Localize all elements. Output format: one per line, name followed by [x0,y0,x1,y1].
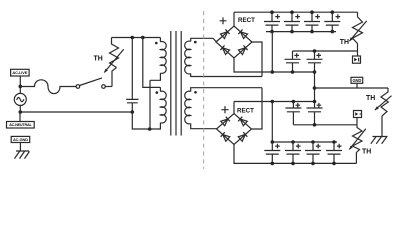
node (X-cap top) [131,36,135,40]
wire (B- rail) [293,124,357,126]
label + (RECT1) [220,17,227,24]
node (bank2 rail at C11) [291,140,295,144]
thermistor TH3 (chassis gnd) [375,88,392,137]
wire (P1 bottom drop) [149,80,151,129]
fuse F1 [20,80,76,94]
wire (RECT2 + rail) [234,101,316,103]
wire (RECT1 - output) [234,58,315,72]
terminal B+ box [353,56,361,63]
svg-text:TH: TH [366,95,375,102]
node (C4 bottom) [310,30,314,34]
wire (B+ raw rail) [234,11,358,13]
node (return rail at C-bank1) [271,70,275,74]
node (mid rail at drop) [271,100,275,104]
ground (mains earth) [15,143,30,159]
capacitor C10 [264,142,280,163]
node (neutral junction) [19,110,23,114]
node (C13 bottom) [332,162,336,166]
thermistor TH2 (B-) [349,125,366,164]
capacitor C12 [305,142,321,163]
bridge rectifier RECT1 [216,26,252,58]
wire (RECT1 + output) [233,12,235,26]
svg-text:GND: GND [352,78,361,83]
node (return rail at C7/gnd) [313,70,317,74]
node (bank2 rail at C10) [271,140,275,144]
node (C2 bottom) [270,30,274,34]
ground (chassis) [371,137,388,144]
wire (gnd drop to bank2) [271,102,273,143]
transformer T1 secondary winding S2 [185,88,262,129]
svg-text:AC-LIVE: AC-LIVE [12,70,27,75]
wire (AC-LIVE lead) [19,76,21,86]
isolation boundary (dashed) [203,11,205,169]
node (rail at C3 top) [290,10,294,14]
svg-text:RECT: RECT [237,107,254,114]
node (C3 bottom) [290,30,294,34]
capacitor C13 [326,142,342,163]
label + (RECT2) [221,106,228,113]
terminal B- box [354,111,362,125]
node (mid rail at C8) [292,100,296,104]
node (P1/P2 bottom junction) [148,127,152,131]
svg-text:TH: TH [362,149,371,156]
capacitor C7 [307,51,323,63]
node (rail at C2 top) [270,10,274,14]
svg-text:AC-NEUTRAL: AC-NEUTRAL [9,123,32,127]
capacitor C11 [285,142,301,163]
capacitor C3 [284,12,300,31]
wire (bank1 bottom rail) [266,31,336,33]
svg-text:TH: TH [94,56,103,63]
wire (primary strap to P2 top) [143,38,161,88]
label TH (TH2) [362,149,371,156]
wire (primary top rail) [112,37,161,39]
node (X-cap bottom) [131,110,135,114]
wire (RECT2 - output) [234,145,356,164]
capacitor C8 [285,102,301,125]
svg-text:RECT: RECT [238,17,255,24]
label AC-NEUTRAL [7,112,35,128]
node (live junction) [19,85,23,89]
node (C7 top) [313,49,317,53]
wire (S2 AC right loop) [252,88,263,129]
capacitor C9 [307,102,323,125]
transformer T1 secondary winding S1 [185,38,262,76]
node (bank2 rail at C13) [332,140,336,144]
wire (C7 lead to gnd node) [314,63,316,102]
AC source V1 [14,86,26,112]
node (P2 phase dot) [156,91,159,94]
node (C5 bottom) [331,30,335,34]
label TH (TH3) [366,95,375,102]
node (C12 bottom) [311,162,315,166]
node (C10 bottom) [271,162,275,166]
wire (B+ filtered rail) [293,50,358,52]
svg-text:AC-GND: AC-GND [13,137,28,142]
node (S2 phase dot) [194,91,197,94]
wire (neutral rail) [20,111,132,113]
node (gnd at rail) [313,86,317,90]
label AC-GND [11,136,30,142]
node (P1 phase dot) [155,42,158,45]
capacitor C2 [264,12,280,31]
capacitor C6 [285,51,301,72]
label TH (TH1) [340,39,349,46]
wire (RECT1 AC right loop) [252,42,262,77]
transformer T1 core [171,31,181,136]
wire (bank1 return drop) [271,32,273,72]
svg-text:TH: TH [340,39,349,46]
node (S1 phase dot) [194,41,197,44]
node (rail at C5 top) [331,10,335,14]
node (return rail at C6) [291,70,295,74]
label RECT (RECT1) [238,17,255,24]
thermistor TH1 (B+) [349,12,366,56]
capacitor C1 (line filter) [126,38,138,113]
wire (GND rail) [315,87,389,89]
capacitor C4 [304,12,320,31]
node (bank2 rail at C12) [311,140,315,144]
thermistor TH (inrush, primary) [104,38,124,87]
wire (neutral to winding bottom) [132,112,149,129]
node (C11 bottom) [291,162,295,166]
wire (bank2 top rail) [272,141,337,143]
label AC-LIVE [11,69,30,76]
transformer T1 primary winding P1 [150,38,166,81]
node (B- rail at C9) [313,123,317,127]
bridge rectifier RECT2 [217,114,252,145]
capacitor C5 [324,12,340,31]
label RECT (RECT2) [237,107,254,114]
transformer T1 primary winding P2 [150,87,166,129]
label GND box [351,77,363,88]
node (strap top) [141,36,145,40]
label TH (primary) [94,56,103,63]
node (mid rail at C9) [313,100,317,104]
wire (RECT2 + output) [233,102,235,114]
node (rail at C4 top) [310,10,314,14]
switch S1 [76,78,112,88]
